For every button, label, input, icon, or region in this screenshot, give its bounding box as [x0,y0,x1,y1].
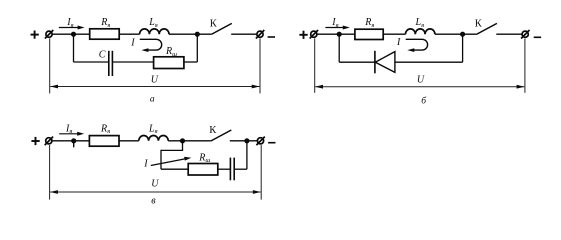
diode VD triangle circuit b [375,52,395,73]
minus sign circuit v [268,142,275,144]
wire: capacitor to shunt resistor circuit a [112,61,153,63]
svg-text:U: U [417,75,425,86]
svg-text:Lя: Lя [148,17,158,29]
wire: inductor to switch circuit v [168,140,211,142]
wire: branch horizontal to capacitor circuit a [74,61,109,63]
current arrow I diagonal circuit v [151,157,192,166]
switch K blade circuit a [211,23,232,34]
wire: inductor to switch circuit a [169,33,211,35]
wire: diode to right vertical circuit b [395,61,463,63]
svg-text:К: К [475,18,483,29]
wire: inductor to switch circuit b [435,33,477,35]
dimension extension line left circuit b [314,38,316,92]
wire: switch to right terminal circuit b [496,33,522,35]
wire: branch step from junction circuit v [161,141,183,169]
node: junction dot after switch circuit v [244,138,249,143]
svg-text:Rш: Rш [165,46,177,58]
svg-text:U: U [151,75,159,86]
switch K blade circuit b [476,23,497,34]
svg-text:Rя: Rя [100,124,110,136]
wire: switch to right terminal circuit v [230,140,257,142]
resistor R_ya circuit b [355,29,383,39]
left terminal (crossed circle) circuit b [310,30,318,39]
plus sign (+) circuit b [299,31,307,39]
svg-text:I: I [130,37,135,48]
wire: branch right vertical circuit a [196,34,198,62]
dimension extension line right circuit b [524,38,526,92]
wire: branch right vertical circuit b [462,34,464,62]
node: junction dot after inductor circuit b [460,32,465,37]
diode VD cathode bar circuit b [374,51,376,74]
dimension line U circuit a [50,85,259,89]
current loop arrow I circuit a [140,39,162,52]
right terminal (crossed circle) circuit b [521,30,529,39]
node: junction dot after inductor circuit a [195,32,200,37]
dimension extension line right circuit a [259,38,261,93]
svg-text:I: I [396,37,401,48]
node: junction dot after inductor circuit v [180,138,185,143]
wire: shunt resistor to right vertical circuit a [184,61,197,63]
resistor R_sh circuit a [154,57,184,69]
current arrow I_ya circuit v [59,132,84,136]
wire: branch horizontal to diode circuit b [339,61,375,63]
wire: branch left vertical circuit a [73,34,75,62]
svg-text:Iя: Iя [65,124,72,136]
minus sign circuit a [268,36,275,38]
wire: branch horizontal to shunt resistor circuit v [161,168,188,170]
right terminal (crossed circle) circuit a [256,30,264,39]
inductor L_ya circuit a [140,29,169,34]
wire: shunt resistor to capacitor circuit v [218,168,231,170]
wire: branch right vertical circuit v [246,141,248,169]
svg-text:К: К [209,125,217,136]
wire: resistor to inductor circuit v [119,140,139,142]
plus sign (+) circuit a [31,31,39,39]
wire: left terminal to resistor circuit a [52,33,89,35]
svg-text:C: C [99,49,106,60]
capacitor plates circuit v [230,158,234,181]
wire: capacitor to right vertical circuit v [234,168,247,170]
node: junction dot with stub circuit v [71,138,76,147]
inductor L_ya circuit b [406,29,435,34]
svg-text:Iя: Iя [66,17,73,29]
node: junction dot circuit a [71,32,76,37]
dimension line U circuit b [315,85,524,89]
capacitor C circuit a [109,51,113,76]
dimension extension line left circuit v [49,145,51,200]
wire: resistor to inductor circuit b [383,33,405,35]
left terminal (crossed circle) circuit v [45,137,53,146]
wire: left terminal to resistor circuit b [317,33,355,35]
svg-text:Rя: Rя [100,17,110,29]
right terminal (crossed circle) circuit v [256,137,264,146]
dimension extension line left circuit a [49,38,51,93]
wire: branch left vertical circuit b [338,34,340,62]
current loop arrow I circuit b [406,39,428,52]
resistor R_sh circuit v [188,164,218,176]
svg-text:Rш: Rш [198,152,210,164]
switch K blade circuit v [211,130,232,141]
wire: switch to right terminal circuit a [231,33,257,35]
plus sign (+) circuit v [31,137,39,145]
dimension extension line right circuit v [260,145,262,200]
current arrow I_ya circuit b [325,26,349,30]
svg-text:Lя: Lя [415,17,425,29]
svg-text:U: U [151,178,159,189]
current arrow I_ya circuit a [59,26,85,30]
svg-text:Rя: Rя [364,17,374,29]
resistor R_ya circuit v [89,136,119,147]
svg-text:Lя: Lя [148,124,158,136]
wire: left terminal to resistor circuit v [52,140,89,142]
resistor R_ya circuit a [90,29,120,39]
svg-text:а: а [150,94,155,104]
svg-text:I: I [143,159,148,170]
dimension line U circuit v [50,190,261,194]
svg-text:Iя: Iя [331,17,338,29]
svg-text:в: в [151,196,156,207]
svg-text:К: К [210,18,218,29]
inductor L_ya circuit v [139,136,168,141]
minus sign circuit b [534,36,541,38]
node: junction dot circuit b [337,32,342,37]
wire: resistor to inductor circuit a [119,33,139,35]
svg-text:б: б [421,95,427,106]
left terminal (crossed circle) circuit a [45,30,53,39]
